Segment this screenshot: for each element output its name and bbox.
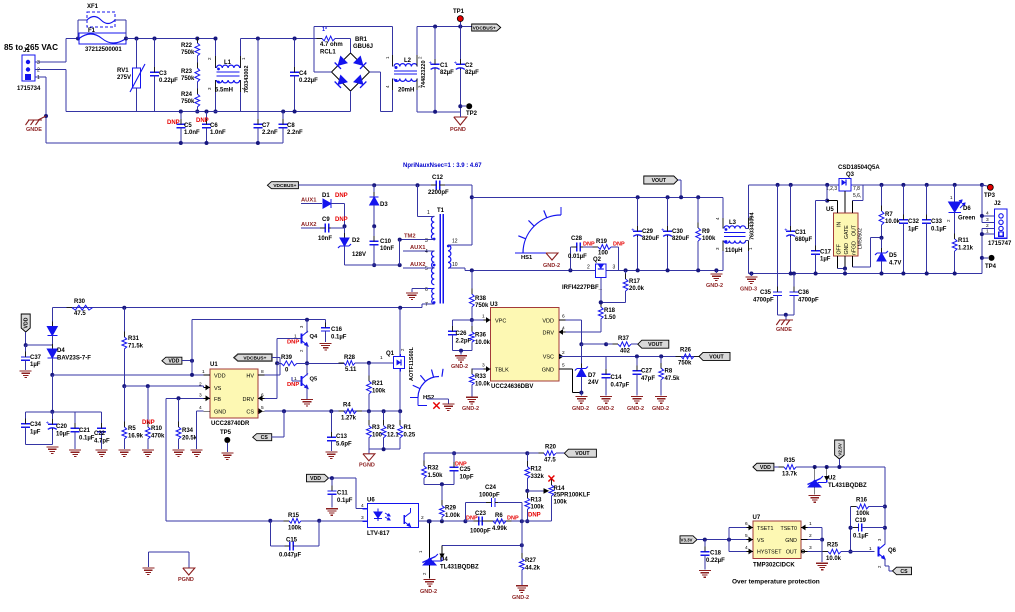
resistor R6 DNP: [493, 519, 506, 524]
svg-text:J1: J1: [23, 48, 30, 54]
capacitor C30: [666, 195, 670, 199]
wire bridge left vertex loop to L2 pin1: [314, 71, 331, 73]
resistor R23: [195, 68, 200, 82]
svg-text:C24: C24: [485, 485, 497, 491]
net flag V3.3V: [680, 536, 697, 544]
wire RCL1 to bridge: [335, 38, 351, 40]
svg-text:C6: C6: [210, 123, 218, 129]
net flag VDD opto: [307, 474, 329, 482]
svg-text:C3: C3: [159, 71, 167, 77]
svg-text:5,6,: 5,6,: [853, 193, 861, 199]
svg-text:3: 3: [877, 538, 882, 541]
svg-text:0.047µF: 0.047µF: [279, 553, 301, 559]
svg-text:VDD: VDD: [214, 373, 226, 379]
capacitor C20: [48, 423, 57, 425]
ground U7: [816, 562, 828, 564]
resistor R26: [681, 354, 694, 359]
wire VDCBUS top rail: [417, 26, 472, 28]
svg-text:VDCBUS+: VDCBUS+: [473, 26, 496, 32]
wire GND pin down: [808, 539, 823, 541]
svg-text:3: 3: [986, 217, 989, 223]
svg-text:L2: L2: [404, 58, 412, 64]
ground GND-3: [749, 272, 753, 276]
wire R25 to Q6 base: [851, 551, 875, 553]
wire T1 pin7 to Q1 drain: [398, 306, 402, 310]
resistor R39: [275, 361, 279, 365]
net flag VDD top-left: [21, 314, 30, 332]
wire CS pin row: [265, 410, 332, 412]
svg-text:TP2: TP2: [466, 111, 478, 117]
transformer T1 lower aux winding: [432, 288, 435, 304]
svg-text:0.1µF: 0.1µF: [79, 436, 95, 442]
ground GND-2 secondary rail: [714, 268, 718, 272]
svg-text:VSC: VSC: [543, 355, 554, 361]
svg-text:V3.3V: V3.3V: [681, 538, 693, 543]
svg-text:1.00k: 1.00k: [445, 513, 461, 519]
resistor R38: [471, 270, 473, 294]
svg-text:U7: U7: [753, 515, 761, 521]
ground PGND primary: [454, 117, 467, 125]
svg-text:8: 8: [261, 369, 264, 375]
svg-text:R21: R21: [372, 381, 384, 387]
svg-text:TP5: TP5: [220, 430, 232, 436]
svg-text:C1: C1: [440, 63, 448, 69]
svg-text:4700pF: 4700pF: [798, 298, 819, 304]
capacitor C31: [789, 183, 793, 187]
ground C20: [46, 446, 58, 448]
wire VDD node down: [51, 375, 53, 412]
svg-text:0.22µF: 0.22µF: [159, 78, 178, 84]
wire lower rail primary: [66, 111, 350, 113]
capacitor C33: [925, 183, 929, 187]
svg-text:4: 4: [986, 210, 989, 216]
wire top rail stage2: [241, 38, 315, 40]
svg-text:5.11: 5.11: [345, 367, 357, 373]
wire Y-caps to earth: [778, 314, 794, 316]
svg-text:J2: J2: [994, 201, 1001, 207]
resistor R22: [195, 37, 199, 41]
svg-text:402: 402: [620, 349, 631, 355]
svg-text:R7: R7: [885, 212, 893, 218]
capacitor C14: [605, 356, 607, 374]
svg-text:2: 2: [809, 533, 812, 539]
svg-text:1715734: 1715734: [17, 86, 41, 92]
ground PGND lower left: [183, 568, 195, 575]
svg-text:DNP: DNP: [335, 193, 348, 199]
resistor R32: [423, 453, 425, 466]
svg-text:C18: C18: [710, 551, 722, 557]
ground R34: [173, 449, 185, 451]
svg-text:R36: R36: [475, 333, 487, 339]
svg-text:1000pF: 1000pF: [479, 493, 500, 499]
capacitor C15: [269, 521, 271, 546]
transformer T1 aux winding: [432, 251, 435, 285]
svg-text:275V: 275V: [117, 75, 131, 81]
net flag CS temp: [893, 567, 912, 575]
svg-text:VDCBUS+: VDCBUS+: [243, 356, 266, 362]
wire V2.5V rail to Q6: [884, 467, 886, 541]
svg-text:GND-2: GND-2: [652, 406, 669, 412]
wire U4 ref row: [442, 544, 522, 546]
svg-text:D6: D6: [963, 206, 971, 212]
wire T1 pin10 to rail: [448, 267, 465, 269]
svg-text:R11: R11: [958, 238, 969, 244]
wire R32 C25 bottom row: [424, 483, 454, 485]
capacitor C22: [75, 411, 102, 413]
svg-text:U6: U6: [367, 498, 375, 504]
svg-text:VDD: VDD: [24, 317, 30, 328]
resistor R10 DNP: [147, 386, 149, 427]
svg-text:10.0k: 10.0k: [475, 340, 491, 346]
capacitor C25 DNP: [452, 451, 456, 455]
svg-text:100k: 100k: [554, 500, 568, 506]
wire VOUT feedback row: [424, 452, 527, 454]
svg-text:BAV23S-7-F: BAV23S-7-F: [57, 356, 91, 362]
net flag VDD U1: [162, 357, 182, 364]
svg-text:TSET1: TSET1: [757, 526, 774, 532]
svg-text:100k: 100k: [372, 389, 386, 395]
resistor R33: [472, 368, 484, 370]
svg-text:D2: D2: [352, 238, 360, 244]
svg-text:D3: D3: [380, 202, 388, 208]
svg-text:2: 2: [986, 223, 989, 229]
svg-text:4.7 ohm: 4.7 ohm: [320, 42, 343, 48]
resistor RCL1: [314, 38, 322, 40]
wire C26 R36 gnd node: [453, 350, 472, 352]
wire gate row: [307, 362, 344, 364]
capacitor C17: [816, 200, 828, 202]
svg-text:GND-2: GND-2: [572, 406, 589, 412]
wire C12 right to secondary: [471, 185, 473, 245]
svg-text:V2.5V: V2.5V: [837, 442, 842, 455]
svg-text:6: 6: [261, 392, 264, 398]
transformer T1 core: [439, 214, 441, 304]
wire J1 pin1 to GNDE: [45, 77, 47, 143]
svg-text:C12: C12: [432, 175, 444, 181]
resistor R35: [774, 466, 784, 468]
ground U2: [809, 495, 821, 497]
svg-text:1000pF: 1000pF: [470, 529, 491, 535]
resistor R24: [196, 82, 198, 94]
svg-text:47.5k: 47.5k: [665, 376, 681, 382]
svg-text:3: 3: [37, 60, 40, 66]
svg-text:R18: R18: [604, 308, 616, 314]
wire U5 IN to rail: [825, 183, 829, 187]
svg-text:1: 1: [427, 210, 430, 216]
svg-text:100k: 100k: [531, 505, 545, 511]
wire T1 pin7 long: [421, 304, 423, 308]
resistor R13 DNP: [526, 491, 528, 498]
svg-text:DNP: DNP: [196, 118, 209, 124]
svg-text:4: 4: [199, 405, 202, 411]
capacitor C7: [256, 37, 260, 41]
svg-text:R12: R12: [531, 467, 543, 473]
wire opto collector row: [429, 520, 466, 522]
svg-text:Q2: Q2: [593, 257, 602, 263]
svg-text:0: 0: [285, 368, 289, 374]
svg-text:128V: 128V: [352, 252, 366, 258]
ground C37: [20, 370, 32, 372]
svg-text:AUX1: AUX1: [410, 245, 426, 251]
svg-text:3: 3: [425, 238, 428, 244]
wire DRV to R39: [265, 397, 278, 399]
svg-text:4: 4: [715, 217, 720, 220]
svg-text:82µF: 82µF: [465, 70, 479, 76]
svg-text:VDD: VDD: [542, 318, 554, 324]
capacitor C3: [153, 37, 157, 41]
svg-text:R16: R16: [856, 498, 868, 504]
capacitor C36: [792, 272, 796, 276]
ground R10: [142, 449, 154, 451]
ground C21: [69, 449, 81, 451]
svg-text:2200pF: 2200pF: [428, 190, 449, 196]
wire secondary bottom rail: [472, 269, 595, 271]
resistor R36: [471, 320, 473, 332]
svg-text:VDD: VDD: [168, 359, 179, 365]
capacitor C13: [330, 411, 332, 437]
svg-text:GND-3: GND-3: [740, 287, 757, 293]
ground pair lower left: [148, 551, 189, 553]
svg-text:750k: 750k: [181, 76, 195, 82]
resistor R28: [344, 361, 355, 366]
net flag VOUT R37: [638, 340, 669, 348]
svg-text:CS: CS: [246, 410, 254, 416]
ground GND-2 C14: [600, 396, 612, 398]
svg-text:C4: C4: [299, 71, 307, 77]
svg-text:UCC28740DR: UCC28740DR: [211, 421, 250, 427]
capacitor C11: [331, 478, 333, 491]
wire VDD flag to diode node: [25, 332, 27, 345]
resistor R15: [270, 520, 289, 522]
svg-text:BR1: BR1: [355, 37, 368, 43]
svg-text:2: 2: [299, 349, 304, 352]
svg-text:+: +: [454, 61, 457, 67]
common-mode choke L2: [394, 64, 417, 67]
svg-text:C13: C13: [336, 434, 348, 440]
net label TM2 wire: [400, 239, 435, 241]
capacitor C4: [293, 37, 297, 41]
svg-text:2: 2: [421, 515, 424, 521]
svg-text:DNP: DNP: [287, 340, 299, 346]
svg-text:+: +: [46, 421, 49, 427]
common-mode choke L3: [722, 197, 724, 228]
svg-text:85 to 265 VAC: 85 to 265 VAC: [4, 43, 58, 52]
wire J2 return side: [981, 229, 983, 274]
svg-text:2: 2: [400, 348, 405, 351]
net label AUX1 stub: [301, 203, 322, 205]
svg-text:5.6pF: 5.6pF: [336, 442, 352, 448]
svg-text:OFF: OFF: [837, 244, 843, 254]
wire U5 OUT to rail: [851, 201, 853, 213]
net flag CS U1: [253, 434, 272, 441]
svg-text:12: 12: [452, 239, 458, 245]
svg-text:1: 1: [809, 521, 812, 527]
svg-text:VDD: VDD: [760, 465, 771, 471]
no-connect X HS2: [433, 402, 439, 408]
net flag VDCBUS+ mid: [267, 182, 298, 189]
wire top rail: [126, 38, 216, 40]
svg-text:1.0nF: 1.0nF: [210, 130, 226, 136]
net flag VOUT top: [644, 176, 678, 184]
resistor R12: [526, 453, 528, 466]
resistor R3: [368, 411, 370, 426]
svg-text:1.50k: 1.50k: [428, 473, 444, 479]
capacitor C34: [26, 411, 53, 413]
svg-text:LTV-817: LTV-817: [367, 531, 390, 537]
resistor R37: [606, 343, 618, 345]
svg-text:820uF: 820uF: [672, 236, 690, 242]
svg-text:C27: C27: [641, 369, 653, 375]
resistor R2: [383, 411, 385, 426]
svg-text:R23: R23: [181, 69, 193, 75]
ground U1: [191, 449, 203, 451]
svg-text:DNP: DNP: [613, 242, 625, 248]
svg-text:2: 2: [37, 68, 40, 74]
svg-text:750k: 750k: [475, 303, 489, 309]
svg-text:3: 3: [613, 265, 616, 271]
wire VDCBUS rail to T1: [298, 184, 436, 186]
svg-text:R32: R32: [428, 466, 440, 472]
capacitor C29: [636, 195, 640, 199]
svg-text:3: 3: [809, 545, 812, 551]
svg-text:10nF: 10nF: [380, 246, 394, 252]
svg-text:TP1: TP1: [453, 9, 465, 15]
svg-text:D5: D5: [889, 253, 897, 259]
svg-text:C23: C23: [475, 511, 487, 517]
svg-text:71.5k: 71.5k: [128, 344, 144, 350]
svg-text:U1: U1: [210, 362, 218, 368]
svg-text:7: 7: [425, 302, 428, 308]
net flag V2.5V: [835, 440, 845, 459]
svg-text:R25: R25: [827, 543, 839, 549]
ground GNDE: [44, 114, 48, 118]
svg-text:R39: R39: [281, 355, 293, 361]
wire U3 VDD to Q2 gate net: [565, 319, 581, 321]
net label AUX2 T1 wire: [403, 267, 434, 269]
svg-text:820uF: 820uF: [642, 236, 660, 242]
svg-text:R4: R4: [343, 403, 351, 409]
svg-text:1µF: 1µF: [820, 257, 831, 263]
svg-text:3: 3: [361, 515, 364, 521]
net flag VOUT VSC: [699, 352, 730, 360]
svg-text:0.1µF: 0.1µF: [331, 335, 347, 341]
svg-text:Over temperature protection: Over temperature protection: [732, 579, 820, 586]
resistor R11: [954, 213, 956, 240]
svg-text:0.47µF: 0.47µF: [611, 383, 630, 389]
svg-text:DNP: DNP: [335, 217, 348, 223]
svg-text:R29: R29: [445, 506, 457, 512]
svg-text:R31: R31: [128, 336, 140, 342]
svg-text:744823220: 744823220: [421, 60, 427, 88]
resistor R25: [828, 549, 841, 554]
ground GND-2 C26: [455, 355, 467, 357]
svg-text:R27: R27: [525, 558, 537, 564]
svg-text:VOUT: VOUT: [709, 354, 724, 360]
svg-text:0.1µF: 0.1µF: [931, 227, 947, 233]
ground GND-2 R8: [655, 396, 667, 398]
ground TP5: [221, 452, 233, 454]
svg-text:R35: R35: [784, 458, 796, 464]
capacitor C32: [901, 183, 905, 187]
svg-text:TL431BQDBZ: TL431BQDBZ: [828, 483, 867, 489]
wire V3.3V row: [697, 539, 746, 541]
ground C16: [320, 342, 332, 344]
svg-text:R2: R2: [387, 425, 395, 431]
svg-text:4.99k: 4.99k: [492, 526, 508, 532]
svg-text:Q6: Q6: [888, 548, 897, 554]
svg-text:RCL1: RCL1: [320, 50, 336, 56]
resistor R17: [624, 268, 628, 272]
wire T1 pin12 to C12: [448, 244, 472, 246]
svg-text:5: 5: [562, 363, 565, 369]
svg-text:C28: C28: [571, 236, 583, 242]
net flag VOUT bottom: [564, 449, 596, 457]
svg-text:100k: 100k: [288, 526, 302, 532]
svg-text:TP4: TP4: [985, 264, 997, 270]
capacitor C35: [776, 183, 780, 187]
fuse holder XF1: [77, 20, 79, 39]
svg-text:2: 2: [199, 381, 202, 387]
svg-text:GND: GND: [542, 367, 554, 373]
svg-text:37212500001: 37212500001: [85, 47, 122, 53]
svg-text:1µF: 1µF: [908, 227, 919, 233]
capacitor C26: [453, 319, 472, 321]
svg-text:4: 4: [745, 545, 748, 551]
svg-text:0.25: 0.25: [404, 433, 416, 439]
wire U3 DRV to R18: [565, 331, 601, 333]
svg-text:R34: R34: [182, 428, 194, 434]
svg-text:1,2,3: 1,2,3: [826, 186, 837, 192]
svg-text:R5: R5: [128, 426, 136, 432]
wire Q5 base: [295, 380, 302, 382]
svg-text:+: +: [429, 61, 432, 67]
svg-text:C35: C35: [760, 290, 772, 296]
svg-text:GND-2: GND-2: [420, 589, 437, 595]
svg-text:1.27k: 1.27k: [341, 416, 357, 422]
svg-text:47pF: 47pF: [641, 376, 655, 382]
capacitor C10: [373, 226, 375, 241]
svg-text:C37: C37: [30, 355, 42, 361]
net flag VDCBUS+ top: [472, 24, 501, 31]
diode D1 DNP: [323, 199, 331, 208]
wire R27 node: [521, 521, 523, 545]
net flag VDCBUS+ HV: [234, 354, 272, 361]
wire HV pin: [272, 357, 280, 359]
svg-text:5.5mH: 5.5mH: [215, 88, 233, 94]
wire FB pin: [166, 397, 204, 399]
svg-text:5: 5: [745, 533, 748, 539]
svg-text:U2: U2: [828, 476, 836, 482]
svg-text:GND-2: GND-2: [462, 406, 479, 412]
wire R16 C19 left leg: [850, 507, 852, 552]
transistor Q5 DNP: [301, 376, 303, 386]
wire TSET0 to GND pin: [808, 527, 823, 529]
resistor R5: [123, 386, 125, 427]
svg-text:VOUT: VOUT: [648, 342, 663, 348]
wire VDD node rail: [50, 373, 54, 377]
svg-text:D1: D1: [322, 193, 330, 199]
svg-text:16.9k: 16.9k: [128, 434, 144, 440]
svg-text:GBU6J: GBU6J: [353, 44, 373, 50]
capacitor C2: [458, 25, 462, 29]
resistor R7: [880, 183, 884, 187]
svg-text:4: 4: [385, 85, 390, 88]
svg-text:0.1µF: 0.1µF: [337, 498, 353, 504]
svg-text:R15: R15: [288, 513, 300, 519]
svg-text:0.1µF: 0.1µF: [853, 534, 869, 540]
resistor R31: [122, 306, 126, 310]
svg-text:1.21k: 1.21k: [958, 246, 974, 252]
